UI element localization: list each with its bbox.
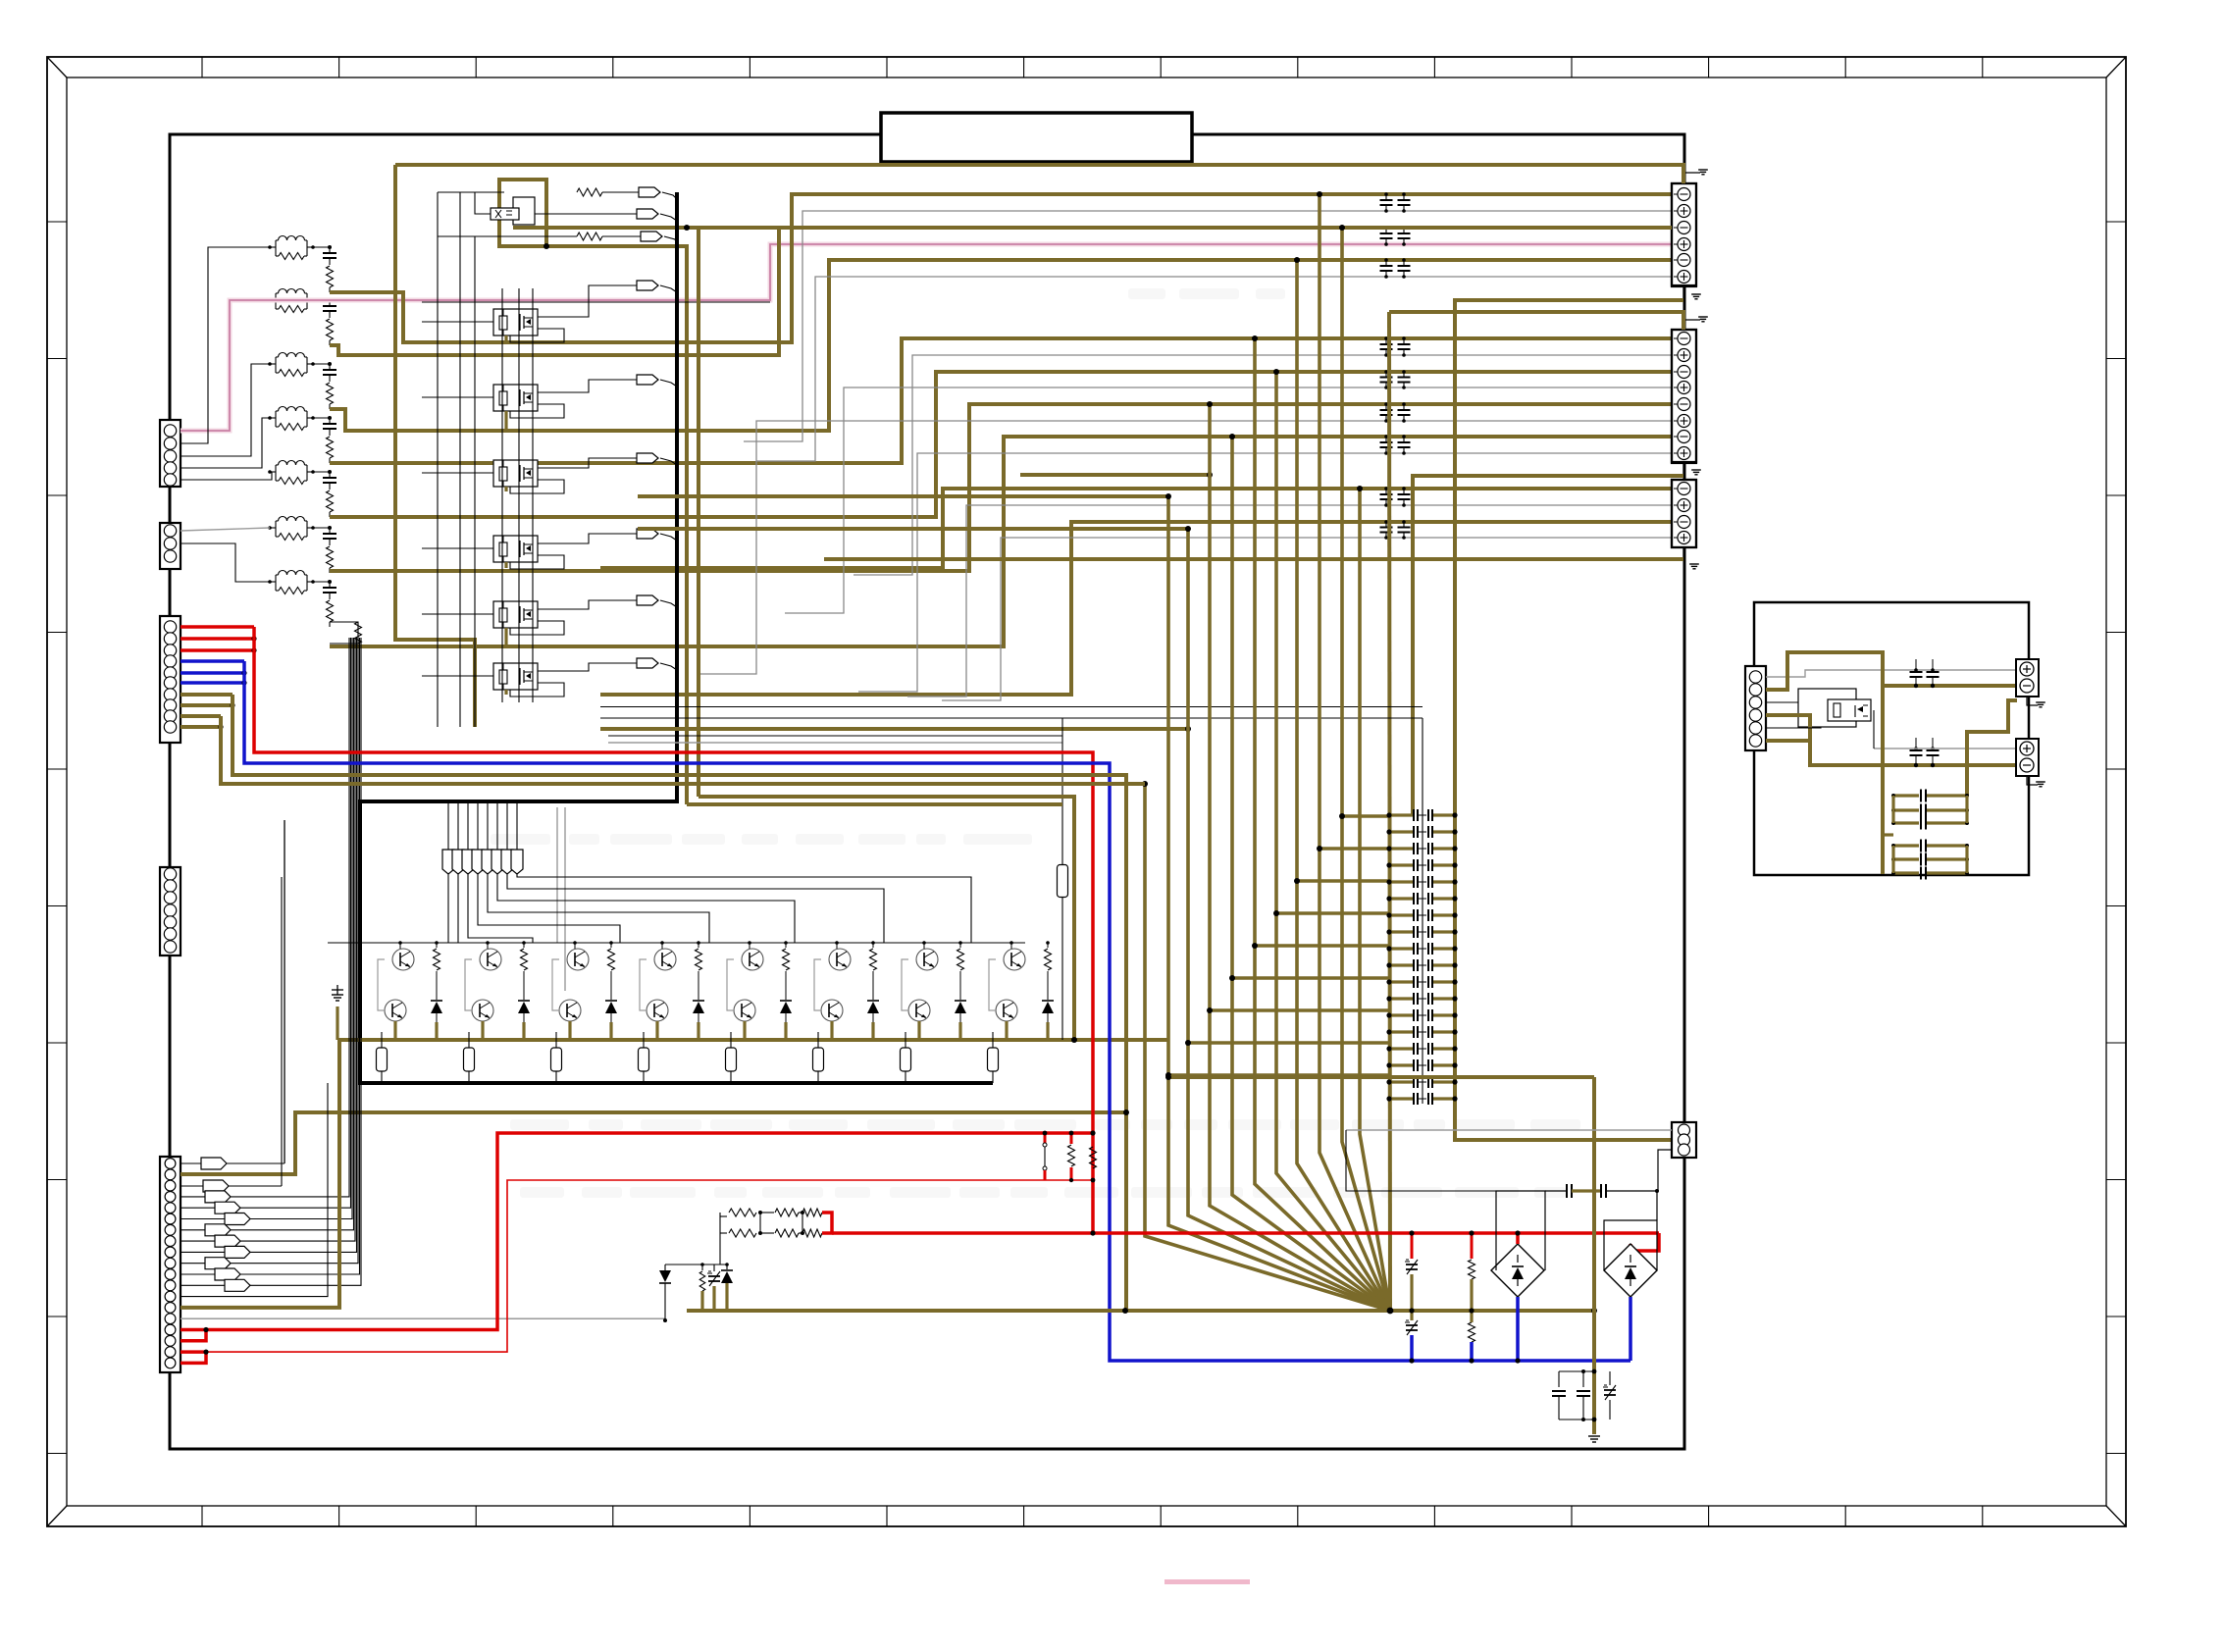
olive link sub2	[1883, 833, 1893, 836]
capacitor C1 and resistor R1 to net	[323, 245, 336, 292]
diode D9	[659, 1265, 671, 1322]
olive bus line L4	[1207, 401, 1390, 1311]
resistor RL1	[1068, 1131, 1075, 1183]
signal return wire row 8 (thin)	[942, 538, 1672, 700]
transistor Q14 (upper)	[567, 949, 589, 970]
capacitor C5 and resistor R5 to net	[323, 470, 336, 517]
resistor RB8	[1045, 941, 1052, 989]
capacitor pair ladder row 14	[1386, 1026, 1457, 1038]
wire J1.5-FB5	[181, 472, 272, 480]
signal return wire row 5 (thin)	[698, 421, 1672, 674]
net tag module Q3	[538, 375, 677, 392]
olive vertical to caps	[1592, 1077, 1596, 1434]
wire module bottom row 1	[600, 706, 1423, 708]
red-red link A (jumper)	[1043, 1131, 1048, 1180]
wire module Q6 drain loop	[510, 621, 564, 635]
tvs DZ3	[1603, 1371, 1616, 1420]
resistor R7b	[330, 622, 362, 644]
caps top rail	[1559, 1369, 1596, 1374]
net tag module Q2	[538, 281, 677, 317]
olive bus line L11	[1357, 486, 1390, 1311]
olive wire to output strip row 6	[330, 404, 1672, 571]
wire base link 6	[814, 941, 839, 1010]
signal return wire row 3 (thin)	[854, 355, 1672, 575]
resistor RB4	[696, 941, 702, 989]
module chain wire w1	[501, 288, 503, 702]
olive stub QE6	[830, 1021, 833, 1040]
olive stub QD4	[697, 1022, 699, 1040]
wire tag stair 8	[447, 874, 449, 943]
wire module Q5 drain loop	[510, 555, 564, 569]
capacitor pair ladder row 1	[1386, 809, 1457, 821]
olive bus line L1	[1142, 781, 1390, 1311]
olive wire to output strip row 9	[600, 522, 1672, 695]
transistor Q22 (upper)	[916, 949, 938, 970]
pink signal wire (J1.1)	[181, 244, 1672, 431]
resistor pill RP8	[988, 1032, 999, 1083]
connector J1 (5-pin, left)	[160, 420, 181, 487]
connector P4 (3-pin)	[1672, 1122, 1696, 1158]
olive grid row G1	[1339, 813, 1389, 819]
olive grid row G3	[1294, 878, 1389, 884]
wire J1.4-FB4	[181, 418, 270, 468]
olive feed to P2 top	[1389, 312, 1683, 330]
resistor pill RP9	[1058, 718, 1068, 1040]
capacitor pair ladder row 8	[1386, 926, 1457, 938]
transistor Q20 (upper)	[829, 949, 851, 970]
cap pair CP1	[1545, 1184, 1659, 1198]
capacitor pair ladder row 7	[1386, 909, 1457, 921]
capacitor C3 and resistor R3 to net	[323, 362, 336, 409]
olive wire J6.4	[1766, 715, 1810, 741]
olive exit P2 bottom	[1413, 476, 1683, 815]
blue stub CS1	[1515, 1297, 1520, 1364]
module U2 inner	[1828, 699, 1871, 721]
transistor Q24 (upper)	[1004, 949, 1025, 970]
resistor pair RL3	[1469, 1230, 1475, 1363]
wire base link 7	[902, 941, 926, 1010]
transistor Q18 (upper)	[742, 949, 763, 970]
net tag N3	[602, 232, 677, 243]
olive wire J5.2	[181, 1112, 1125, 1174]
olive stub QD3	[609, 1022, 612, 1040]
olive stub QE7	[917, 1021, 920, 1040]
black bus (module return)	[360, 192, 993, 1083]
tvs DZ2 pair	[1405, 1230, 1418, 1363]
signal return wire row 2 (thin)	[756, 277, 1672, 461]
olive wire J5.14	[181, 1040, 339, 1308]
transistor Q25 (lower)	[996, 1000, 1017, 1021]
olive exit P3 bottom (long left run)	[824, 557, 1683, 561]
wire tag stair 2	[507, 874, 884, 943]
connector J4 (7-pin, left)	[160, 867, 181, 955]
olive feeder row upper	[1165, 1074, 1594, 1080]
olive grid row G5	[1252, 943, 1389, 949]
MOSFET module Q3	[493, 385, 538, 411]
filter capacitor pair rows 345/362	[1380, 336, 1411, 357]
wire J2.2-FB7	[181, 543, 270, 582]
wire RC6 link	[313, 527, 330, 529]
module chain wire w3	[532, 288, 534, 702]
wire J6.3	[1766, 701, 1798, 703]
capacitor pair ladder row 12	[1386, 993, 1457, 1005]
resistor R10	[577, 188, 602, 196]
module chain wire v2	[459, 192, 461, 727]
terminal T2	[2016, 739, 2039, 776]
net tag T2	[452, 801, 464, 874]
cap C20	[1552, 1371, 1566, 1420]
wire J6.5	[1766, 727, 1821, 728]
wire J5.11 tag	[181, 638, 360, 1280]
olive stub module y546	[504, 562, 507, 568]
olive bus line L5	[1229, 434, 1390, 1311]
terminal T2 ground	[2027, 776, 2045, 787]
diode D5	[780, 989, 792, 1022]
olive stub QE1	[393, 1021, 396, 1040]
olive grid row G7	[1207, 1007, 1389, 1013]
filter capacitor pair rows 532/548	[1380, 520, 1411, 540]
ground stub P2 top	[1683, 317, 1708, 330]
olive stub QD2	[522, 1022, 525, 1040]
net tag T4	[472, 801, 484, 874]
net tag module Q7	[538, 658, 677, 671]
olive feeder F539	[638, 527, 1188, 531]
olive bus line L10	[1339, 225, 1390, 1311]
red wire J5.18/19 (thin)	[181, 1180, 1093, 1363]
olive bus line L8	[1294, 257, 1390, 1311]
resistor RB7	[957, 941, 964, 989]
caps bottom rail	[1559, 1418, 1596, 1422]
diode D1	[431, 989, 442, 1022]
olive bus line L6	[1252, 336, 1390, 1311]
olive emitter bus	[337, 1038, 1168, 1042]
output strip P1 (6-pin)	[1672, 183, 1696, 286]
transistor Q17 (lower)	[647, 1000, 668, 1021]
olive wire to output strip row 3	[330, 260, 1672, 431]
olive feed to P1 top	[395, 165, 1683, 183]
wire J5.7 tag	[181, 638, 354, 1236]
resistor RB6	[870, 941, 877, 989]
olive stub module y613	[504, 628, 507, 646]
CS1 sense box	[1496, 1191, 1545, 1270]
resistor pill RP7	[901, 1032, 911, 1083]
cap ladder mid rail	[1422, 718, 1423, 1104]
olive wire J3.7-8	[181, 695, 1129, 1311]
resistor pill RP3	[551, 1032, 562, 1083]
red corner chain to rail C	[822, 1213, 832, 1233]
olive stub QD6	[871, 1022, 874, 1040]
olive feeder W4	[600, 726, 1191, 732]
capacitor group sub 1	[1891, 790, 1969, 830]
resistor RB5	[783, 941, 790, 989]
olive grid row G9	[1165, 1072, 1389, 1078]
connector J6 (6-pin)	[1745, 666, 1766, 750]
wire J5.4 tag	[181, 638, 349, 1203]
net tag T6	[492, 801, 503, 874]
capacitor C4 and resistor R4 to net	[323, 416, 336, 463]
net tag T1	[442, 801, 454, 874]
resistor pill RP6	[813, 1032, 824, 1083]
filter bead/resistor FB4	[268, 407, 315, 431]
wire module Q4 gate	[422, 472, 493, 474]
gray wire J5.15	[181, 1317, 665, 1319]
olive stub QD5	[784, 1022, 787, 1040]
capacitor pair ladder row 11	[1386, 976, 1457, 988]
wire module Q2 gate	[422, 321, 493, 323]
transistor Q15 (lower)	[559, 1000, 581, 1021]
wire RC3 link	[313, 363, 330, 365]
resistor pill RP5	[726, 1032, 737, 1083]
thin wire T2 feed	[1874, 710, 2016, 749]
net tag module Q5	[538, 529, 677, 543]
filter capacitor pair rows 198/215	[1380, 192, 1411, 213]
filter capacitor pair rows 379/395	[1380, 370, 1411, 389]
olive wire to output strip row 7	[330, 437, 1672, 646]
filter capacitor pair rows 498/515	[1380, 487, 1411, 507]
wire J5.10 tag	[181, 638, 358, 1269]
transistor array top rail	[328, 942, 1025, 944]
resistor R11	[577, 232, 602, 240]
ground stub P1 top	[1683, 170, 1708, 183]
resistor RB1	[434, 941, 440, 989]
module chain wire v3	[474, 236, 476, 727]
olive exit P1 bottom to cap ladder	[1455, 300, 1683, 1140]
module U2 box	[1798, 689, 1856, 727]
red stub CS1	[1515, 1230, 1520, 1244]
wire RC7 link	[313, 581, 330, 583]
red wire J3.1-3 bus	[181, 627, 1093, 1233]
olive wire J3.9-10	[181, 716, 1145, 784]
ground G9	[1588, 1436, 1600, 1442]
filter capacitor pair rows 412/429	[1380, 402, 1411, 423]
resistor pill RP4	[639, 1032, 649, 1083]
transistor Q19 (lower)	[734, 1000, 755, 1021]
olive feeder F506	[638, 494, 1168, 498]
current source CS2	[1604, 1244, 1657, 1297]
terminal T1 ground	[2027, 697, 2045, 707]
olive stub module y469	[504, 487, 507, 491]
wire module bottom row 3	[608, 735, 1062, 737]
module chain wire w2	[518, 288, 520, 702]
olive bus line L3	[1185, 526, 1390, 1311]
module chain wire v1	[437, 192, 439, 727]
resistor chain rows	[720, 1209, 822, 1237]
blue stub CS2	[1629, 1297, 1632, 1361]
gray chain v1	[556, 807, 558, 943]
gray wire module bottom row 4	[608, 742, 1062, 744]
diode D3	[605, 989, 617, 1022]
transistor Q10 (upper)	[392, 949, 414, 970]
sub-board outline	[1754, 602, 2029, 875]
faint background text	[491, 288, 1580, 1198]
capacitor pair ladder row 10	[1386, 959, 1457, 971]
olive stub QE5	[743, 1021, 746, 1040]
olive wire J6.2	[1766, 652, 2016, 690]
wire J5.12 tag	[181, 638, 361, 1291]
resistor RB3	[608, 941, 615, 989]
wire base link 3	[552, 941, 577, 1010]
wire base link 1	[378, 941, 402, 1010]
olive stub QD8	[1046, 1022, 1049, 1040]
transistor Q21 (lower)	[821, 1000, 843, 1021]
olive stub QE2	[481, 1021, 484, 1040]
wire module Q3 gate	[422, 396, 493, 398]
diode cluster top rail	[665, 1264, 727, 1265]
wire J5.9 tag	[181, 638, 357, 1258]
olive wire to output strip row 1	[330, 194, 1672, 342]
transistor Q16 (upper)	[654, 949, 676, 970]
signal return wire row 4 (thin)	[785, 387, 1672, 613]
net tag N2	[535, 209, 677, 221]
connector J3 (10-pin, left)	[160, 616, 181, 743]
wire RC1 link	[313, 246, 330, 248]
signal return wire row 6 (thin)	[858, 453, 1672, 692]
wire tag stair 6	[468, 874, 533, 943]
wire module Q2 drain loop	[510, 329, 564, 342]
olive stub module y392	[504, 411, 507, 431]
wire U1 gate in	[438, 191, 504, 193]
red rail C	[832, 1230, 1659, 1251]
capacitor pair ladder row 3	[1386, 843, 1457, 854]
wire base link 4	[640, 941, 664, 1010]
olive stub QE8	[1005, 1021, 1008, 1040]
capacitor pair ladder row 17	[1386, 1076, 1457, 1088]
wire J5.6 tag	[181, 638, 352, 1225]
terminal T1	[2016, 659, 2039, 697]
MOSFET module Q7	[493, 663, 538, 690]
wire pink-adjacent	[422, 301, 770, 303]
signal return wire row 7 (thin)	[907, 505, 1672, 697]
resistor RB2	[521, 941, 528, 989]
wire tag stair 1	[517, 874, 971, 943]
filter bead/resistor FB3	[268, 353, 315, 377]
capacitor pair ladder row 4	[1386, 859, 1457, 871]
olive stub QD7	[958, 1022, 961, 1040]
capacitor pair ladder row 2	[1386, 826, 1457, 838]
wire module Q7 gate	[422, 675, 493, 677]
olive stub U1b	[697, 228, 700, 797]
capacitor pair ladder row 15	[1386, 1043, 1457, 1055]
wire J5.13	[181, 1083, 328, 1297]
ground stub P3 bottom	[1683, 547, 1699, 569]
gray wire J6.1	[1766, 670, 2016, 677]
gray wire to P4.1	[1346, 1130, 1672, 1191]
wire base link 8	[989, 941, 1013, 1010]
resistor pill RP1	[377, 1032, 388, 1083]
diode D2	[518, 989, 530, 1022]
olive stub module y676	[504, 690, 507, 695]
capacitor pair ladder row 16	[1386, 1059, 1457, 1071]
filter capacitor pair rows 232/249	[1380, 226, 1411, 246]
pink mark	[1164, 1579, 1250, 1584]
wire tag stair 5	[478, 874, 620, 943]
net tag module Q4	[538, 453, 677, 468]
wire J5.5 tag	[181, 638, 351, 1213]
wire chain down	[719, 1233, 721, 1265]
olive bus line L7	[1273, 369, 1390, 1311]
resistor pill RP2	[464, 1032, 475, 1083]
wire module Q5 gate	[422, 547, 493, 549]
wire J5.8 tag	[181, 638, 355, 1247]
olive wire U1 row	[513, 226, 1672, 230]
capacitor C2 and resistor R2 to net	[323, 298, 336, 345]
gray chain v2	[564, 807, 566, 991]
wire module bottom row 2	[600, 717, 1423, 719]
wire RC4 link	[313, 417, 330, 419]
net tag T8	[511, 801, 523, 874]
diode D7	[955, 989, 966, 1022]
net tag T3	[462, 801, 474, 874]
wire module Q7 drain loop	[510, 683, 564, 697]
wire module Q6 gate	[422, 613, 493, 615]
wire tag stair 3	[497, 874, 795, 943]
MOSFET module Q5	[493, 536, 538, 562]
wire J5.3 tag	[181, 877, 282, 1192]
connector J5 (19-pin, bottom-left)	[160, 1157, 181, 1372]
cap C21	[1577, 1371, 1590, 1420]
capacitor pair ladder row 5	[1386, 876, 1457, 888]
connector J2 (3-pin, left)	[160, 523, 181, 569]
array ground	[332, 985, 343, 1040]
wire module Q3 drain loop	[510, 404, 564, 418]
wire module Q4 drain loop	[510, 480, 564, 493]
diode D4	[693, 989, 704, 1022]
capacitor group sub 2	[1891, 840, 1969, 880]
wire U1 left loop	[475, 192, 491, 214]
olive vertical from feed	[395, 165, 475, 727]
olive wire row 812	[699, 797, 1077, 1043]
ground stub P2 bottom	[1683, 462, 1701, 476]
olive stub QE3	[568, 1021, 571, 1040]
wire tag stair 7	[457, 874, 459, 943]
olive wire U1 bottom row	[543, 225, 690, 804]
olive bus line L2	[1165, 493, 1390, 1311]
wire J1.3-FB3	[181, 364, 270, 456]
wire tag stair 4	[488, 874, 709, 943]
olive grid row G2	[1317, 846, 1389, 852]
net tag T5	[482, 801, 493, 874]
capacitor pair ladder row 13	[1386, 1009, 1457, 1021]
olive stub F484	[1020, 472, 1213, 478]
capacitor C6 and resistor R6 to net	[323, 526, 336, 573]
tvs DZ1	[707, 1265, 720, 1311]
cap pair CP2	[1910, 659, 1940, 688]
wire RC2 link	[313, 299, 330, 301]
olive grid row G6	[1229, 975, 1389, 981]
net tag T7	[501, 801, 513, 874]
olive wire row 820	[687, 802, 1062, 806]
filter bead/resistor FB7	[268, 571, 315, 594]
MOSFET module Q6	[493, 601, 538, 628]
wire R10-tag	[438, 235, 577, 237]
olive wire to output strip row 2	[330, 228, 1672, 355]
output strip P3 (4-pin)	[1672, 480, 1696, 547]
net tag module Q6	[538, 595, 677, 609]
filter capacitor pair rows 445/462	[1380, 435, 1411, 455]
main board outline	[170, 134, 1684, 1449]
olive grid row G8	[1185, 1040, 1389, 1046]
diode D6	[867, 989, 879, 1022]
capacitor pair ladder row 6	[1386, 893, 1457, 904]
capacitor pair ladder row 18	[1386, 1093, 1457, 1105]
cap pair CP3	[1910, 738, 1940, 767]
olive wire to output strip row 8	[600, 489, 1672, 568]
wire J1.2-FB1	[181, 247, 270, 443]
filter bead/resistor FB5	[268, 461, 315, 485]
transistor Q23 (lower)	[908, 1000, 930, 1021]
olive loop around module U1	[499, 180, 546, 246]
olive bus line L9	[1317, 191, 1390, 1311]
